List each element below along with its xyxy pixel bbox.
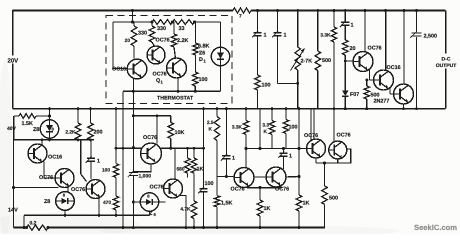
svg-text:Z6: Z6 <box>199 51 205 57</box>
svg-text:F07: F07 <box>350 92 359 98</box>
transistor OC76 (pair left) <box>304 133 326 158</box>
node Z6 D1 labels <box>199 51 207 64</box>
svg-text:OC76: OC76 <box>156 38 170 44</box>
resistor 1.5K (40V) <box>19 114 50 127</box>
capacitor 1 (x226) <box>221 154 235 176</box>
transistor OC76 (center lower) <box>150 179 183 198</box>
svg-text:OC76: OC76 <box>143 135 157 141</box>
svg-text:330: 330 <box>138 31 147 37</box>
svg-text:OC76: OC76 <box>153 72 167 78</box>
wire base bus left <box>116 147 142 149</box>
svg-text:3.3K: 3.3K <box>232 125 243 131</box>
svg-text:20: 20 <box>350 46 356 52</box>
resistor 20 (thermostat) <box>125 22 137 58</box>
svg-text:2-7K: 2-7K <box>301 59 313 65</box>
svg-text:10K: 10K <box>175 130 185 136</box>
wire OC76 emitter to Z8 <box>67 187 69 193</box>
wire x123 through line <box>122 91 125 229</box>
wire Z8 drop from mid rail <box>48 107 51 120</box>
wire branch from 40V arm <box>81 140 87 182</box>
transistor OC76 (pair right) <box>329 133 351 160</box>
resistor 680 <box>176 148 190 177</box>
svg-text:OC16: OC16 <box>387 65 401 71</box>
svg-text:20: 20 <box>125 38 131 44</box>
resistor 100 (x286) <box>283 107 297 148</box>
svg-text:2.5: 2.5 <box>207 120 214 126</box>
resistor 500 (bottom) <box>322 163 338 228</box>
capacitor 100 (center) <box>198 107 213 229</box>
svg-text:4.7K: 4.7K <box>180 207 191 213</box>
resistor 0.2 (bottom rail) <box>25 221 50 231</box>
svg-text:1: 1 <box>97 159 100 165</box>
wire OC16 emitter to bottom bus <box>132 79 134 92</box>
capacitor 1 (x345) <box>340 9 354 29</box>
node 20V left supply line <box>8 10 19 109</box>
wire 2N277 emitter to rail <box>402 104 405 110</box>
wire OC76 emitter to OC16 base <box>370 70 375 81</box>
wire OC76 lower collector <box>174 148 176 179</box>
svg-text:100: 100 <box>289 125 298 131</box>
wire Z6 bottom to bus <box>149 211 151 215</box>
resistor 6.8K (thermostat) <box>193 22 210 72</box>
capacitor 1 (left block) <box>86 140 100 179</box>
resistor 3.3K (x272) <box>262 107 274 148</box>
resistor 20 (x345) <box>343 26 356 61</box>
wire lower bus <box>23 215 150 229</box>
wire x133 column lower <box>132 176 135 229</box>
capacitor 1 (x283) <box>278 149 292 170</box>
svg-text:1: 1 <box>289 154 292 160</box>
svg-text:100: 100 <box>199 77 208 83</box>
wire x299 drop <box>298 107 301 195</box>
wire 14V tap <box>12 186 59 189</box>
svg-text:1K: 1K <box>303 201 310 207</box>
svg-text:1.5K: 1.5K <box>22 121 33 127</box>
resistor 500 (right chain) <box>364 79 380 111</box>
wire x116 drop <box>115 107 118 150</box>
wire top supply rail <box>13 10 446 12</box>
resistor 500 (x318) <box>315 9 331 109</box>
transistor 2N277 <box>374 84 414 105</box>
resistor 200 <box>88 107 103 140</box>
diode Z8 zener in circle (lower) <box>44 192 74 211</box>
resistor 330 (vertical, thermostat) <box>138 22 155 47</box>
svg-text:0.2: 0.2 <box>30 221 37 227</box>
wire collector x246 to OC76A <box>245 149 247 169</box>
node base tap right OC76 <box>344 60 347 63</box>
svg-text:THERMOSTAT: THERMOSTAT <box>157 96 194 102</box>
resistor 4.7K <box>180 173 196 229</box>
wire left lower supply line (14V) <box>8 116 18 228</box>
node junction top rail x258 <box>256 9 259 12</box>
transistor OC16 (right chain) <box>374 65 401 90</box>
wire OC76 lower emitter to bus <box>98 198 101 217</box>
svg-text:500: 500 <box>322 58 331 64</box>
resistor 3.3K (x334) <box>320 9 336 109</box>
svg-text:7: 7 <box>239 14 242 20</box>
svg-text:1: 1 <box>232 156 235 162</box>
wire thermostat left branch <box>113 22 128 69</box>
resistor 2.5K <box>207 107 220 176</box>
svg-text:Z8: Z8 <box>44 199 50 205</box>
node THERMOSTAT label <box>157 96 194 102</box>
svg-text:SeekIC.com: SeekIC.com <box>414 223 457 232</box>
svg-text:470: 470 <box>103 200 111 206</box>
wire D-C output right line <box>445 11 447 109</box>
svg-text:OC76: OC76 <box>39 175 53 181</box>
node watermark <box>414 223 457 232</box>
node 40V bracket <box>7 116 19 140</box>
resistor 2.2K (40V block) <box>65 107 80 140</box>
wire thermostat bottom bus <box>123 90 221 93</box>
svg-text:OC76: OC76 <box>71 187 85 193</box>
transistor OC76 Q1 (thermostat) <box>153 58 187 85</box>
wire collector feed pair right <box>333 107 347 141</box>
wire Z6 right stub <box>159 201 166 203</box>
resistor 10K <box>168 116 184 150</box>
capacitor 1 (x258) <box>252 11 266 39</box>
capacitor 1 (x278) <box>272 11 286 39</box>
resistor 2.2K (thermostat) <box>171 22 188 58</box>
svg-text:1: 1 <box>264 33 267 39</box>
node junction top rail x278 <box>276 9 279 12</box>
wire 40V bottom arm <box>14 138 94 141</box>
resistor 100 (x116) <box>102 148 119 177</box>
wire Q1 emitter to bottom bus <box>177 78 179 92</box>
svg-text:2.2K: 2.2K <box>65 130 76 136</box>
transistor OC76 (right chain) <box>353 46 382 72</box>
wire thermostat top bus <box>113 21 221 24</box>
variable resistor 2-7K <box>291 9 313 109</box>
wire emitter join pair <box>316 149 351 165</box>
svg-text:3.3K: 3.3K <box>320 33 331 39</box>
svg-text:3.3: 3.3 <box>262 123 269 129</box>
transistor OC76 (left upper) <box>39 169 74 188</box>
svg-text:100: 100 <box>205 181 214 187</box>
wire base bus right <box>161 147 204 150</box>
wire base stub OC76 right <box>345 60 353 62</box>
svg-text:Z8: Z8 <box>33 127 39 133</box>
wire mid supply rail <box>13 108 446 110</box>
resistor 100 (x258) <box>255 36 271 109</box>
svg-text:OC76: OC76 <box>337 133 351 139</box>
svg-text:14V: 14V <box>8 208 18 214</box>
transistor OC16 (left) <box>28 144 62 163</box>
svg-text:2N277: 2N277 <box>374 99 390 105</box>
wire collector feed pair left <box>311 109 314 142</box>
svg-text:1: 1 <box>284 33 287 39</box>
wire OC76 center collector <box>156 114 159 143</box>
resistor 1K (x299) <box>296 195 309 229</box>
resistor 7 (top rail, horizontal) <box>233 8 251 20</box>
wire x133 column upper <box>132 91 135 171</box>
resistor 33 (horizontal, thermostat) <box>173 20 195 32</box>
wire OC76 lower emitter <box>180 196 188 230</box>
svg-text:K: K <box>209 127 213 133</box>
wire x226 drop <box>225 107 228 155</box>
resistor 470 <box>103 178 119 217</box>
svg-text:6.8K: 6.8K <box>198 44 209 50</box>
wire drop from top rail into thermostat <box>131 9 134 22</box>
diode Z8 zener in circle <box>33 120 59 138</box>
svg-text:1,000: 1,000 <box>139 174 152 180</box>
wire OC16 emitter to 2N277 base <box>390 88 394 94</box>
transistor OC76 (center) <box>141 135 162 164</box>
svg-text:20V: 20V <box>8 58 19 65</box>
svg-text:33: 33 <box>179 26 185 32</box>
diode F07 <box>342 61 359 110</box>
wire bottom rail left segment <box>14 227 27 229</box>
wire OC76 center emitter <box>133 164 151 172</box>
wire OC16 left emitter to OC76 base <box>44 162 55 179</box>
svg-text:OC76: OC76 <box>368 46 382 52</box>
svg-text:1K: 1K <box>197 167 204 173</box>
wire OC16 left collector <box>41 140 43 145</box>
transistor OC76 (left lower) <box>71 180 105 199</box>
svg-text:2,500: 2,500 <box>424 34 438 40</box>
transistor OC76 upper (thermostat) <box>147 38 170 65</box>
resistor 1K (x194) <box>191 148 203 173</box>
resistor 1.5K (center) <box>214 176 232 229</box>
svg-text:100: 100 <box>102 168 110 174</box>
wire Z6 left stub <box>133 201 140 203</box>
diode Z6 zener in circle <box>140 193 158 217</box>
svg-text:OC76: OC76 <box>231 187 245 193</box>
wire Z8 lower to bus <box>64 210 67 217</box>
wire collector feed OC76 right <box>364 9 367 52</box>
svg-text:1: 1 <box>351 23 354 29</box>
svg-text:100: 100 <box>262 83 271 89</box>
svg-text:680: 680 <box>176 167 184 173</box>
svg-text:1K: 1K <box>264 206 271 212</box>
resistor 330 (horizontal, thermostat) <box>152 20 173 32</box>
transistor OC16 (thermostat) <box>112 59 147 79</box>
resistor 100 (thermostat) <box>192 72 207 91</box>
capacitor 2,500 <box>410 9 437 110</box>
svg-text:1,5K: 1,5K <box>221 201 232 207</box>
svg-text:OUTPUT: OUTPUT <box>436 63 457 69</box>
thermostat dashed enclosure <box>106 16 232 104</box>
transistor OC76 A (bottom center) <box>231 168 255 193</box>
resistor 3.3K (x246) <box>232 107 249 148</box>
wire x278 column to pot <box>278 36 300 85</box>
svg-text:K: K <box>264 129 268 135</box>
wire emitter join A-B <box>247 186 282 189</box>
transistor OC76 B (bottom center) <box>266 167 289 193</box>
svg-text:D-C: D-C <box>442 57 451 63</box>
svg-text:40V: 40V <box>7 126 17 132</box>
wire base bus 2 <box>245 147 307 150</box>
resistor 1K (x260) <box>257 188 270 230</box>
svg-text:D: D <box>199 57 203 63</box>
svg-text:500: 500 <box>329 196 338 202</box>
svg-text:OC16: OC16 <box>112 67 126 73</box>
wire collector feed 2N277 <box>403 9 406 85</box>
node D-C OUTPUT <box>436 57 457 70</box>
svg-text:200: 200 <box>94 130 103 136</box>
svg-text:OC76: OC76 <box>150 185 164 191</box>
wire bottom rail <box>48 227 325 229</box>
wire y176 bus <box>217 175 301 178</box>
svg-text:OC16: OC16 <box>48 155 62 161</box>
wire collector feed OC16 right <box>384 9 387 71</box>
diode D1 zener in circle (thermostat) <box>211 22 229 91</box>
svg-text:2.2K: 2.2K <box>177 38 188 44</box>
wire x260 drop <box>259 109 261 149</box>
capacitor 1,000 <box>128 171 152 180</box>
svg-text:330: 330 <box>157 26 166 32</box>
wire 10K tap <box>133 115 170 117</box>
